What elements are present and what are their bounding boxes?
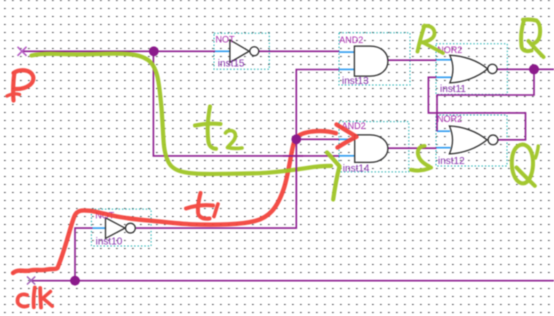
svg-text:AND2: AND2 — [339, 35, 363, 45]
svg-text:inst15: inst15 — [218, 59, 245, 70]
svg-text:inst13: inst13 — [342, 76, 369, 87]
svg-text:inst11: inst11 — [440, 84, 466, 95]
svg-text:NOR2: NOR2 — [437, 114, 462, 124]
svg-text:inst12: inst12 — [438, 156, 465, 167]
svg-text:inst14: inst14 — [343, 164, 370, 175]
svg-text:inst10: inst10 — [96, 237, 123, 248]
svg-text:NOT: NOT — [216, 34, 236, 44]
